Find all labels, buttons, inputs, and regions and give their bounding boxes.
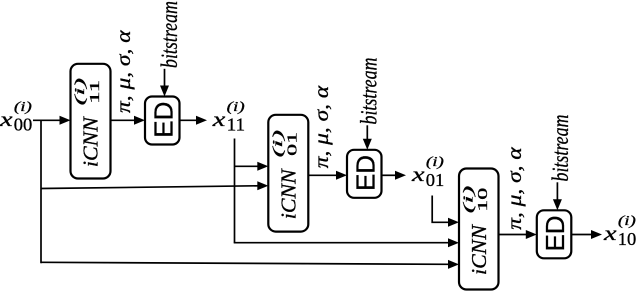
svg-text:bitstream: bitstream [548,115,574,182]
svg-text:iCNN: iCNN [79,116,103,167]
svg-text:(i): (i) [227,100,245,115]
ED label stage1 [148,102,178,138]
svg-text:(i): (i) [426,155,444,170]
wire ED2 to x01 [382,174,396,176]
node x00 [0,100,32,135]
svg-text:π, μ, σ, α: π, μ, σ, α [311,85,333,168]
svg-text:(i): (i) [14,100,32,115]
ED box stage2 [347,150,382,198]
label pi,mu,sigma,alpha stage2 [311,85,333,168]
wire x11 down [234,139,236,243]
bitstream arrow stage2 [366,125,368,140]
svg-text:x: x [211,109,225,131]
node x01 [411,155,445,190]
svg-text:ED: ED [148,102,178,138]
svg-text:ED: ED [540,215,570,251]
svg-text:01: 01 [286,132,301,156]
svg-text:ED: ED [350,155,380,191]
svg-text:00: 00 [14,115,33,135]
bitstream arrow stage3 [556,182,558,200]
wire x11 to iCNN01 [235,165,259,167]
iCNN block stage1 [71,64,111,179]
wire x00 to iCNN01 bus [41,186,258,189]
svg-text:10: 10 [618,229,637,249]
iCNN label stage1 [73,77,103,167]
wire x00 branch vertical [40,120,42,263]
svg-text:iCNN: iCNN [467,224,491,275]
svg-text:10: 10 [476,188,491,212]
wire x00 to iCNN11 [33,119,61,121]
wire ED1 to x11 [180,119,197,121]
iCNN block stage2 [268,115,308,232]
ED label stage3 [540,215,570,251]
svg-text:π, μ, σ, α: π, μ, σ, α [113,30,135,113]
svg-text:iCNN: iCNN [277,168,301,219]
iCNN label stage2 [271,129,301,219]
wire iCNN10 to ED3 [499,234,527,236]
svg-text:bitstream: bitstream [357,58,383,125]
ED label stage2 [350,155,380,191]
wire x00 to iCNN10 bus [41,262,449,264]
bitstream label stage3 [548,115,574,182]
wire x11 to iCNN10 [234,242,449,244]
ED box stage3 [537,210,572,258]
svg-text:bitstream: bitstream [157,1,183,68]
svg-text:x: x [411,164,425,186]
svg-text:x: x [0,109,13,131]
wire x01 elbow to iCNN10 [432,196,448,223]
label pi,mu,sigma,alpha stage3 [504,147,526,230]
svg-text:(i): (i) [618,214,636,229]
svg-text:01: 01 [426,170,445,190]
wire ED3 to x10 [571,234,591,236]
svg-text:(i): (i) [271,129,286,157]
svg-text:11: 11 [227,115,246,135]
node x10 [603,214,637,249]
wire iCNN11 to ED1 [111,119,135,121]
node x11 [211,100,245,135]
svg-text:11: 11 [88,80,103,104]
svg-text:(i): (i) [73,77,88,105]
ED box stage1 [145,97,180,145]
svg-text:x: x [603,223,617,245]
bitstream label stage1 [157,1,183,68]
label pi,mu,sigma,alpha stage1 [113,30,135,113]
iCNN label stage3 [461,185,491,275]
bitstream arrow stage1 [164,69,166,87]
wire iCNN01 to ED2 [308,174,336,176]
svg-text:(i): (i) [461,185,476,213]
iCNN block stage3 [459,169,499,290]
bitstream label stage2 [357,58,383,125]
svg-text:π, μ, σ, α: π, μ, σ, α [504,147,526,230]
